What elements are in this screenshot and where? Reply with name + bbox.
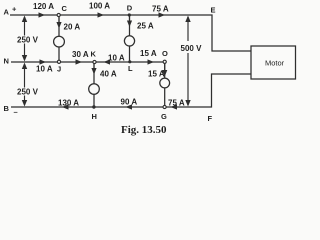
wire branch O-G [164,62,166,107]
svg-text:D: D [127,4,133,13]
node label K [91,50,97,59]
motor M1 label [265,59,285,68]
node J [57,60,60,63]
current arrow 130 A on bottom wire (pointing left) [62,104,69,109]
terminal label A [4,8,10,17]
svg-text:250 V: 250 V [17,88,39,97]
svg-text:250 V: 250 V [17,36,39,45]
svg-text:15 A: 15 A [148,70,165,79]
current arrow 10 A on N-J segment [40,59,47,64]
current arrow 30 A on J-K segment [76,59,83,64]
wire bottom return B-H-G-F [11,74,251,107]
svg-text:Motor: Motor [265,59,285,68]
branch arrow 15 A at O [162,64,167,77]
node C [57,13,60,16]
current arrow 75 A on top wire [159,12,166,17]
svg-text:C: C [62,4,68,13]
node label C [62,4,68,13]
svg-text:500 V: 500 V [181,44,203,53]
label 500 V [181,44,203,53]
current arrow 15 A on L-O segment [148,59,155,64]
wire branch K-H [93,62,95,107]
svg-text:40 A: 40 A [100,70,117,79]
svg-text:N: N [4,57,9,66]
current arrow 75 A on bottom wire (pointing left) [171,104,178,109]
load lamp at K branch [89,84,100,95]
svg-text:J: J [57,65,61,74]
node label F [208,114,213,123]
label 10 A (K-L) [108,54,125,63]
svg-text:–: – [14,108,18,117]
label 90 A [121,98,138,107]
label 130 A [58,99,79,108]
node label E [211,6,216,15]
node O [163,60,166,63]
label 250 V lower [17,88,39,97]
polarity plus sign [12,5,17,14]
node label O [162,49,168,58]
svg-text:20 A: 20 A [64,23,81,32]
node label D [127,4,133,13]
svg-text:L: L [128,64,133,73]
caption Fig. 13.50 [121,124,167,136]
svg-text:A: A [4,8,10,17]
node label H [92,112,97,121]
branch arrow 40 A at K [91,64,96,75]
load lamp at O branch [160,78,170,88]
label 15 A (L-O) [140,49,157,58]
svg-text:G: G [161,112,167,121]
load lamp at D branch [124,36,134,46]
label 75 A top [152,5,169,14]
current arrow 120 A on top wire [39,12,46,17]
svg-text:30 A: 30 A [72,50,89,59]
svg-text:75 A: 75 A [168,99,185,108]
wire middle neutral N-J-K-L-O [11,61,165,63]
svg-text:O: O [162,49,168,58]
dimension arrow 250 V (A to N) [22,16,27,62]
label 120 A [33,2,54,11]
node H [92,105,95,108]
wire branch D-L [129,15,131,62]
svg-text:25 A: 25 A [137,22,154,31]
node D [128,13,131,16]
svg-text:100 A: 100 A [89,2,110,11]
svg-text:Fig. 13.50: Fig. 13.50 [121,124,167,136]
branch arrow 20 A at C [56,17,61,29]
label 30 A [72,50,89,59]
svg-text:E: E [211,6,216,15]
wire branch C-J [58,15,60,62]
label 250 V upper [17,36,39,45]
label 10 A (N-J) [36,65,53,74]
node L [128,60,131,63]
svg-text:B: B [4,104,10,113]
node label J [57,65,61,74]
svg-text:+: + [12,5,17,14]
svg-text:10 A: 10 A [36,65,53,74]
terminal label B [4,104,10,113]
label 25 A [137,22,154,31]
svg-text:75 A: 75 A [152,5,169,14]
label 100 A [89,2,110,11]
label 75 A bottom [168,99,185,108]
current arrow 90 A on bottom wire (pointing left) [126,104,133,109]
dimension arrow 500 V (E to F) [185,16,190,107]
wire top feeder A-C-D-E [10,15,251,51]
svg-text:10 A: 10 A [108,54,125,63]
svg-text:F: F [208,114,213,123]
polarity minus sign [14,108,18,117]
terminal label N [4,57,9,66]
svg-text:K: K [91,50,97,59]
label 40 A [100,70,117,79]
motor M1 box [251,46,296,79]
svg-text:120 A: 120 A [33,2,54,11]
svg-text:15 A: 15 A [140,49,157,58]
dimension arrow 250 V (N to B) [22,63,27,107]
node label L [128,64,133,73]
node label G [161,112,167,121]
current arrow 10 A on L-K segment (pointing left) [104,59,111,64]
load lamp at C branch [54,36,65,47]
svg-text:H: H [92,112,97,121]
current arrow 100 A on top wire [98,12,105,17]
label 15 A (O-G) [148,70,165,79]
node G [163,105,166,108]
branch arrow 25 A at D [127,17,132,27]
svg-text:90 A: 90 A [121,98,138,107]
label 20 A [64,23,81,32]
node K [93,60,96,63]
svg-text:130 A: 130 A [58,99,79,108]
